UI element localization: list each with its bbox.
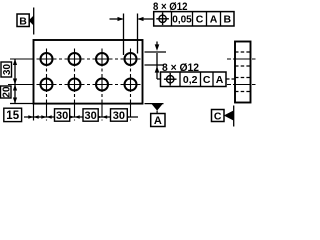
svg-text:15: 15 [6,110,19,122]
svg-text:30: 30 [56,110,68,122]
svg-text:0,05: 0,05 [172,15,192,26]
svg-text:0,2: 0,2 [183,74,198,86]
svg-text:C: C [196,14,204,26]
svg-text:B: B [224,14,232,26]
svg-text:A: A [154,115,162,127]
svg-text:A: A [210,14,218,26]
svg-text:C: C [214,110,222,122]
svg-text:30: 30 [84,110,96,122]
svg-text:20: 20 [1,86,12,98]
svg-text:B: B [19,15,27,27]
svg-text:30: 30 [2,64,13,76]
svg-text:C: C [203,74,211,86]
svg-text:A: A [216,74,224,86]
svg-text:30: 30 [113,110,125,122]
